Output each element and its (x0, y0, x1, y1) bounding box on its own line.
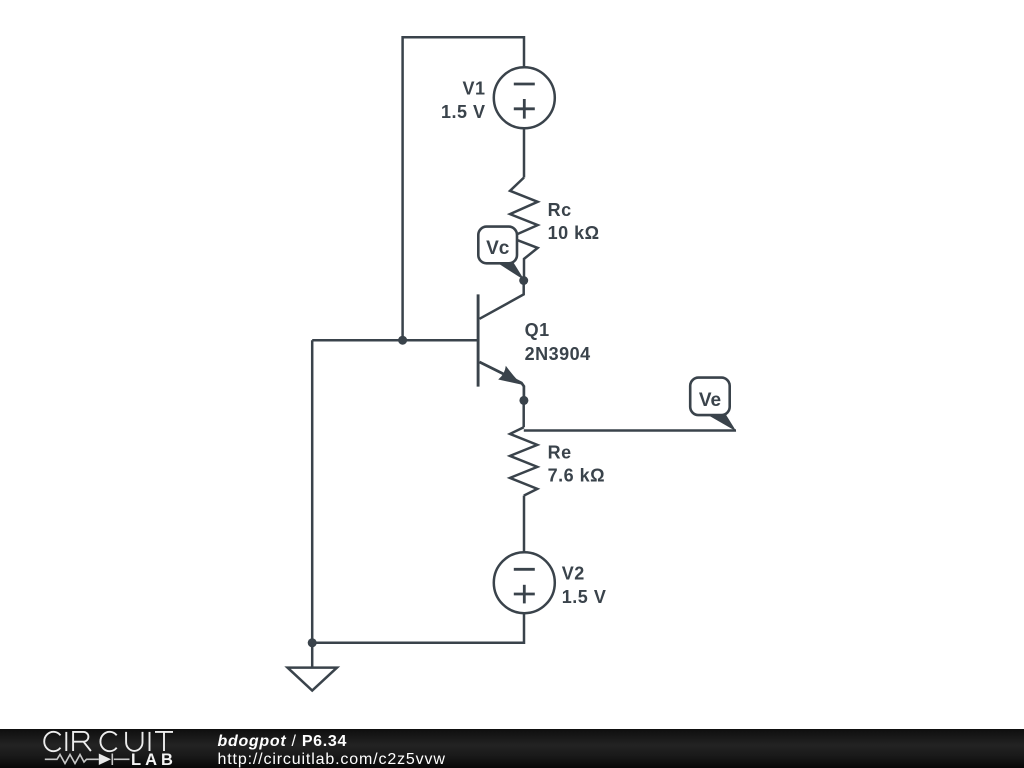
node collector dot (519, 276, 528, 285)
logo squiggle (45, 754, 130, 766)
flag Ve tail (707, 414, 736, 431)
svg-text:bdogpot / P6.34: bdogpot / P6.34 (218, 733, 348, 750)
wire Re to V2 (523, 496, 526, 552)
svg-text:Q1: Q1 (525, 320, 550, 340)
resistor Rc (510, 178, 538, 281)
svg-text:V2: V2 (562, 563, 585, 583)
wire top loop (403, 37, 524, 340)
flag Vc (478, 227, 517, 264)
svg-text:LAB: LAB (131, 751, 177, 768)
voltage source V2 (494, 552, 555, 613)
wire V1 to Rc (523, 129, 526, 177)
logo diode (99, 754, 111, 766)
transistor Q1 collector (480, 281, 524, 319)
logo CIRCUIT (44, 732, 173, 751)
transistor Q1 base bar (477, 294, 480, 386)
resistor Re (510, 427, 537, 495)
node emitter dot (519, 396, 528, 405)
ground (311, 643, 314, 668)
flag Vc tail (497, 261, 525, 280)
wire base (312, 339, 478, 342)
svg-text:1.5 V: 1.5 V (441, 102, 486, 122)
svg-text:V1: V1 (462, 79, 485, 99)
svg-text:Vc: Vc (486, 238, 510, 259)
flag Ve (690, 378, 730, 416)
transistor Q1 emitter arrow (498, 366, 521, 385)
transistor Q1 emitter (480, 362, 524, 401)
svg-text:Re: Re (548, 443, 572, 463)
node ground dot (308, 638, 317, 647)
svg-text:http://circuitlab.com/c2z5vvw: http://circuitlab.com/c2z5vvw (218, 751, 446, 768)
voltage source V1 (494, 67, 555, 128)
wire Ve horizontal (524, 429, 736, 432)
svg-text:2N3904: 2N3904 (525, 344, 591, 364)
wire emitter node to Re (522, 401, 525, 427)
svg-text:Rc: Rc (548, 200, 572, 220)
node base dot (398, 336, 407, 345)
svg-text:Ve: Ve (699, 390, 721, 411)
svg-text:7.6 kΩ: 7.6 kΩ (548, 466, 605, 486)
footer bar (0, 729, 1024, 768)
wire left vertical and bottom run (312, 340, 524, 643)
svg-text:10 kΩ: 10 kΩ (548, 223, 600, 243)
svg-text:1.5 V: 1.5 V (562, 587, 607, 607)
